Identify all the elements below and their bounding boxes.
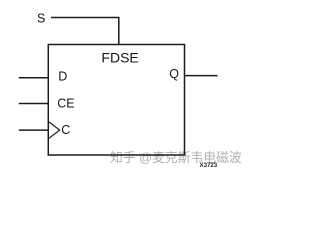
svg-text:D: D	[58, 69, 67, 83]
clock edge triangle at pin C	[49, 122, 60, 138]
svg-text:FDSE: FDSE	[101, 50, 138, 66]
wire CE input stub	[19, 103, 49, 105]
wire D input stub	[19, 77, 49, 79]
wire C clock input stub	[19, 129, 49, 131]
svg-text:S: S	[37, 12, 45, 26]
flip-flop body U1 (FDSE)	[48, 45, 184, 156]
svg-text:C: C	[61, 123, 70, 137]
wire S input	[51, 18, 119, 45]
svg-text:CE: CE	[57, 97, 74, 111]
svg-text:X3723: X3723	[200, 162, 218, 169]
svg-text:知乎 @麦克斯韦电磁波: 知乎 @麦克斯韦电磁波	[110, 150, 242, 165]
svg-text:Q: Q	[169, 67, 179, 81]
wire Q output stub	[185, 75, 218, 77]
